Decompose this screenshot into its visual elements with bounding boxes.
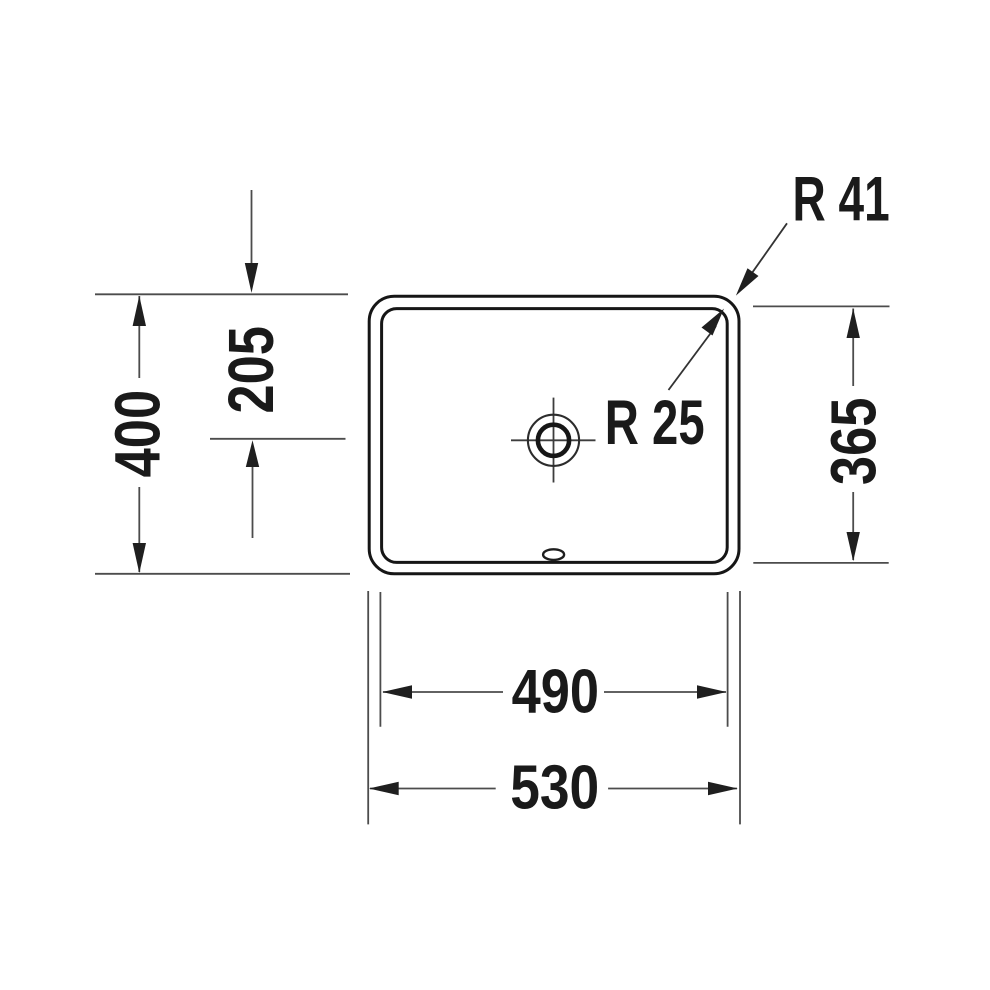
drain crosshair horizontal bbox=[511, 439, 596, 441]
leader R25 shaft bbox=[669, 326, 717, 390]
svg-text:400: 400 bbox=[103, 390, 174, 478]
svg-text:490: 490 bbox=[512, 657, 599, 726]
svg-text:365: 365 bbox=[818, 398, 889, 486]
dim 205 arrow down bbox=[245, 263, 258, 293]
svg-text:205: 205 bbox=[216, 326, 287, 414]
svg-text:R 41: R 41 bbox=[793, 163, 890, 234]
dim 490 arrow left bbox=[382, 685, 412, 698]
dim 365 line lower bbox=[852, 492, 854, 560]
dim 490 line right bbox=[604, 691, 726, 693]
svg-text:R 25: R 25 bbox=[605, 387, 705, 457]
extension line below inner left bbox=[379, 592, 381, 727]
dim 205 arrow up bbox=[246, 440, 259, 467]
basin inner rim bbox=[382, 309, 728, 563]
svg-text:530: 530 bbox=[510, 754, 599, 823]
dim 530 line left bbox=[370, 788, 496, 790]
basin outer rim bbox=[369, 296, 739, 574]
overflow slot bbox=[543, 549, 564, 560]
leader R41 shaft bbox=[744, 223, 787, 284]
dim 400 arrow up bbox=[133, 296, 146, 326]
dim 400 arrow down bbox=[133, 543, 146, 573]
leader R25 arrowhead bbox=[702, 309, 725, 336]
leader R41 arrowhead bbox=[736, 268, 759, 295]
extension line top left (y 294) bbox=[95, 293, 348, 295]
dim 530 line right bbox=[608, 788, 737, 790]
extension line bottom left (y 574) bbox=[95, 573, 350, 575]
dim 205 top leader shaft bbox=[251, 190, 253, 270]
dim 365 arrow up bbox=[847, 309, 860, 339]
extension line drain level (205 dim) bbox=[210, 438, 346, 440]
extension line below outer left bbox=[367, 591, 369, 824]
dim 365 line upper bbox=[852, 309, 854, 387]
dim 490 line left bbox=[383, 691, 503, 693]
dim 205 bottom leader shaft bbox=[252, 465, 254, 538]
dim 365 arrow down bbox=[847, 532, 860, 561]
drain outer circle bbox=[528, 415, 579, 466]
dim 400 line upper bbox=[138, 296, 140, 378]
drain crosshair vertical bbox=[553, 398, 555, 483]
drain inner circle bbox=[538, 425, 569, 456]
dim 530 arrow left bbox=[369, 782, 399, 795]
dim 490 arrow right bbox=[697, 685, 727, 698]
extension line below outer right bbox=[739, 591, 741, 824]
extension line 365 bottom bbox=[753, 562, 888, 564]
dim 400 line lower bbox=[138, 487, 140, 572]
dim 530 arrow right bbox=[708, 782, 738, 795]
extension line below inner right bbox=[727, 592, 729, 727]
extension line 365 top bbox=[753, 305, 890, 307]
